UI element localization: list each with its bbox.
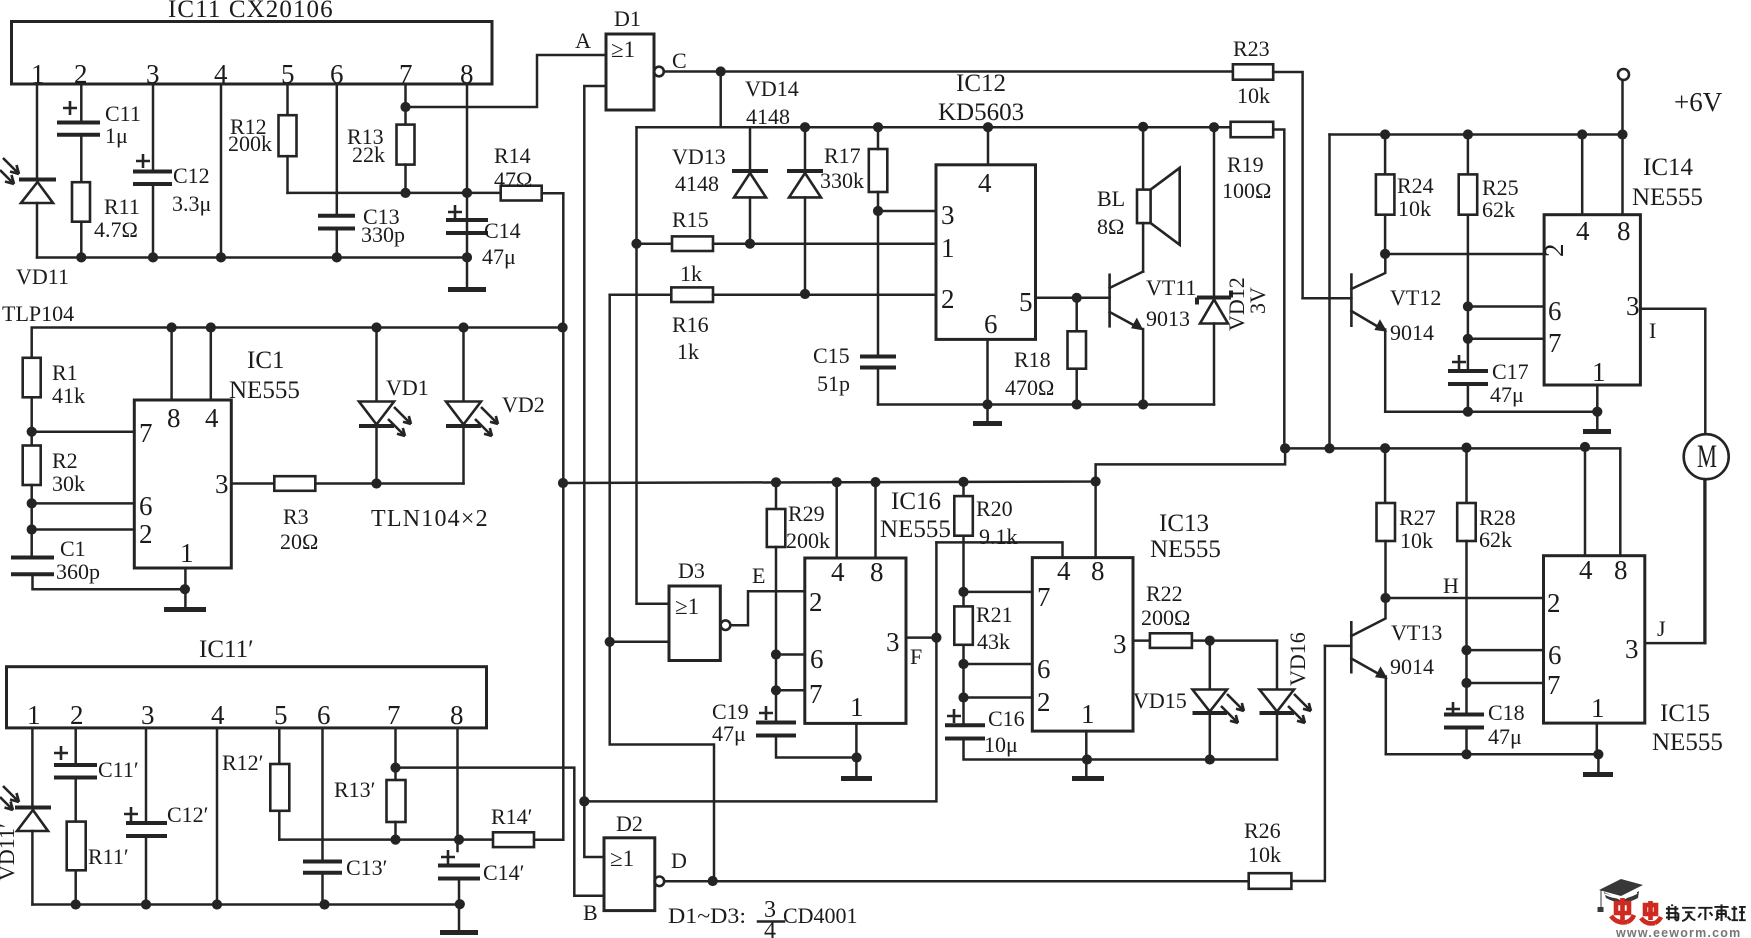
svg-text:47μ: 47μ xyxy=(1490,382,1524,407)
capacitor C14' xyxy=(438,850,525,931)
wire H to IC15 pin2 xyxy=(1386,597,1544,600)
svg-text:R18: R18 xyxy=(1014,347,1051,372)
wire IC15 pin4 xyxy=(1584,447,1587,556)
svg-text:62k: 62k xyxy=(1482,197,1515,222)
svg-text:IC14: IC14 xyxy=(1643,154,1694,181)
node rail R28 xyxy=(1461,443,1471,453)
svg-text:R11: R11 xyxy=(104,194,140,219)
wire IC13 pin2 xyxy=(964,696,1033,699)
op-amp IC16 NE555 box xyxy=(805,488,951,723)
svg-text:B: B xyxy=(583,900,598,925)
LED VD15 xyxy=(1133,641,1244,760)
svg-text:3: 3 xyxy=(1113,629,1127,659)
svg-text:TLN104×2: TLN104×2 xyxy=(371,506,489,532)
wire IC16 pin4 xyxy=(835,482,838,558)
wire IC1 pin6 xyxy=(32,502,135,505)
svg-text:6: 6 xyxy=(1037,654,1051,684)
node F xyxy=(931,633,941,643)
node VD14 pin2 wire xyxy=(800,289,810,299)
wire pin8 IC11 down xyxy=(466,84,469,232)
svg-text:41k: 41k xyxy=(52,383,85,408)
wire IC14 pin4 xyxy=(1581,135,1584,215)
wire IC14 pin2 xyxy=(1385,253,1544,256)
gate D2 xyxy=(604,811,687,911)
node rail R29 xyxy=(771,477,781,487)
svg-text:R29: R29 xyxy=(788,501,825,526)
node R13 bottom xyxy=(400,188,410,198)
svg-text:6: 6 xyxy=(810,644,824,674)
svg-text:6: 6 xyxy=(139,491,153,521)
node R25 pin6 xyxy=(1463,301,1473,311)
wire IC1 pin8 xyxy=(170,328,173,401)
op-amp IC1 NE555 box xyxy=(134,347,300,568)
svg-text:R3: R3 xyxy=(283,504,309,529)
node pin8' R14' xyxy=(454,835,464,845)
capacitor C18 xyxy=(1444,700,1525,754)
watermark eeworm logo xyxy=(1598,879,1746,938)
svg-text:VD14: VD14 xyxy=(745,76,799,101)
resistor R15 xyxy=(637,207,937,286)
gate D3 xyxy=(669,558,765,661)
svg-text:330p: 330p xyxy=(361,222,405,247)
transistor VT11 xyxy=(1110,272,1197,405)
resistor R19 xyxy=(1222,122,1284,449)
svg-text:C17: C17 xyxy=(1492,359,1529,384)
node rail pin3' xyxy=(141,899,151,909)
wire IC15 pin6 xyxy=(1467,649,1544,652)
svg-text:1μ: 1μ xyxy=(105,123,128,148)
svg-text:330k: 330k xyxy=(820,168,864,193)
wire IC1 pin7 xyxy=(32,430,135,433)
node rail IC16 pin8 xyxy=(870,477,880,487)
svg-text:200Ω: 200Ω xyxy=(1141,605,1190,630)
capacitor C16 xyxy=(945,706,1277,760)
op-amp IC11 CX20106 box xyxy=(12,0,493,89)
svg-text:F: F xyxy=(910,644,922,669)
svg-text:NE555: NE555 xyxy=(1632,184,1703,211)
svg-text:8: 8 xyxy=(450,700,464,730)
wire bottom rail IC11 xyxy=(37,256,467,259)
svg-text:470Ω: 470Ω xyxy=(1005,375,1054,400)
svg-text:A: A xyxy=(575,28,591,53)
svg-text:C11′: C11′ xyxy=(98,757,139,782)
svg-text:10k: 10k xyxy=(1237,83,1270,108)
svg-text:7: 7 xyxy=(1548,328,1562,358)
diode VD13 xyxy=(672,127,768,244)
capacitor C17 xyxy=(1448,355,1529,412)
resistor R2 xyxy=(23,446,85,556)
svg-text:≥1: ≥1 xyxy=(675,594,699,619)
svg-text:200k: 200k xyxy=(228,131,272,156)
wire IC16 pin8 xyxy=(874,482,877,558)
transistor VT12 xyxy=(1351,254,1441,412)
wire pin1 IC11' xyxy=(31,728,34,806)
node IC14 pin4 top xyxy=(1577,129,1587,139)
svg-text:8: 8 xyxy=(1614,555,1628,585)
node pin3 rail xyxy=(148,252,158,262)
wire IC15 pin1 stub xyxy=(1596,723,1599,754)
LED VD1 xyxy=(359,328,429,484)
node IC1 pin8 top xyxy=(167,322,177,332)
node rail R27 xyxy=(1380,443,1390,453)
wire F vertical xyxy=(584,542,936,801)
ground under C14 xyxy=(448,287,486,292)
svg-text:R13′: R13′ xyxy=(334,777,376,802)
node V3 F tap xyxy=(579,796,589,806)
svg-text:7: 7 xyxy=(387,700,401,730)
node C18 bottom xyxy=(1461,749,1471,759)
ground IC12 pin6 xyxy=(986,405,989,422)
wire IC16 pin1 ground xyxy=(855,723,858,775)
node rail pin6' xyxy=(319,899,329,909)
wire IC16 pin7 xyxy=(776,689,805,692)
wire A from pin7 to D1 xyxy=(406,55,607,107)
node VD15 bottom xyxy=(1205,754,1215,764)
svg-text:R24: R24 xyxy=(1397,173,1434,198)
op-amp IC12 KD5603 box xyxy=(936,70,1036,339)
wire IC14 pin7 xyxy=(1468,338,1544,341)
svg-text:VD1: VD1 xyxy=(386,375,429,400)
node pin5 R18 xyxy=(1072,293,1082,303)
svg-text:43k: 43k xyxy=(977,629,1010,654)
node rail IC16 pin4 xyxy=(832,477,842,487)
capacitor C11' xyxy=(54,728,139,822)
svg-text:C18: C18 xyxy=(1488,700,1525,725)
svg-text:4.7Ω: 4.7Ω xyxy=(94,217,138,242)
wire VT12 emitter rail xyxy=(1385,410,1597,413)
svg-text:R27: R27 xyxy=(1399,505,1436,530)
svg-text:4: 4 xyxy=(831,557,845,587)
wire IC15 pin3 J xyxy=(1645,479,1705,643)
svg-text:www.eeworm.com: www.eeworm.com xyxy=(1615,926,1741,938)
node VD1 bottom xyxy=(371,478,381,488)
svg-text:IC11 CX20106: IC11 CX20106 xyxy=(168,0,334,23)
svg-text:4: 4 xyxy=(978,168,992,198)
node IC13 pin1 rail xyxy=(1082,754,1092,764)
node R13 top / A wire xyxy=(400,102,410,112)
wire pin4 IC11 xyxy=(220,84,223,258)
transistor VT13 xyxy=(1325,598,1442,754)
svg-text:NE555: NE555 xyxy=(1652,729,1723,756)
svg-text:R14: R14 xyxy=(494,143,531,168)
wire speaker rail xyxy=(637,126,1231,129)
svg-text:VD16: VD16 xyxy=(1285,632,1310,686)
wire D1 input2 vertical bus V3 xyxy=(584,86,606,857)
ground under C14' xyxy=(440,930,478,935)
svg-text:≥1: ≥1 xyxy=(610,846,634,871)
node C junction xyxy=(716,66,726,76)
svg-text:6: 6 xyxy=(1548,296,1562,326)
svg-text:D2: D2 xyxy=(616,811,643,836)
resistor R13' xyxy=(334,728,406,840)
wire IC1 pin2 xyxy=(32,528,135,531)
photodiode VD11' xyxy=(0,786,51,905)
svg-text:D1: D1 xyxy=(614,6,641,31)
capacitor C12' xyxy=(124,728,209,905)
svg-text:22k: 22k xyxy=(352,142,385,167)
ground IC13 xyxy=(1072,776,1104,781)
svg-text:4: 4 xyxy=(764,918,776,938)
svg-text:C16: C16 xyxy=(988,706,1025,731)
node pin8 rail xyxy=(462,252,472,262)
node R28 pin7 xyxy=(1461,678,1471,688)
resistor R14 xyxy=(494,143,563,201)
resistor R12 xyxy=(228,84,297,193)
svg-text:H: H xyxy=(1443,573,1459,598)
node rail C14' xyxy=(455,899,465,909)
node R25 pin7 xyxy=(1463,334,1473,344)
svg-text:7: 7 xyxy=(1037,582,1051,612)
resistor R14' xyxy=(491,804,563,847)
capacitor C15 xyxy=(813,343,896,405)
node R29 pin6 xyxy=(771,649,781,659)
node R25 top xyxy=(1463,129,1473,139)
op-amp IC14 NE555 box xyxy=(1539,154,1703,387)
wire VT13 emitter rail xyxy=(1386,753,1599,756)
wire VT12 base xyxy=(1303,297,1352,300)
resistor R1 xyxy=(23,358,85,446)
LED VD2 xyxy=(446,328,545,484)
node R1 bottom / pin7 xyxy=(27,427,37,437)
node VT11 emitter rail xyxy=(1138,399,1148,409)
wire IC13 pin6 xyxy=(964,663,1033,666)
wire pin1 IC11 xyxy=(36,84,39,178)
svg-text:8: 8 xyxy=(167,403,181,433)
ground IC16 xyxy=(841,776,872,781)
svg-text:IC12: IC12 xyxy=(956,70,1006,97)
node IC15 pin1 xyxy=(1593,749,1603,759)
svg-text:2: 2 xyxy=(1547,588,1561,618)
gate D1 xyxy=(575,6,687,110)
svg-text:1: 1 xyxy=(941,233,955,263)
node pin2 tap IC13 xyxy=(958,692,968,702)
svg-text:IC11′: IC11′ xyxy=(199,636,254,663)
svg-text:6: 6 xyxy=(984,309,998,339)
svg-text:8: 8 xyxy=(1617,216,1631,246)
svg-text:2: 2 xyxy=(941,284,955,314)
svg-text:47μ: 47μ xyxy=(1488,724,1522,749)
wire vertical bus V1 from R14 to R14' xyxy=(562,193,565,840)
wire R12' bottom row xyxy=(279,838,493,841)
svg-text:200k: 200k xyxy=(786,528,830,553)
resistor R17 xyxy=(820,127,887,354)
svg-text:C14′: C14′ xyxy=(483,860,525,885)
node IC14 pin1 xyxy=(1592,407,1602,417)
svg-text:D: D xyxy=(671,848,687,873)
node pin1 ground xyxy=(180,584,190,594)
node D xyxy=(708,876,718,886)
svg-text:C1: C1 xyxy=(60,536,86,561)
wire IC14 pin8 xyxy=(1621,135,1624,215)
wire IC12 pin4 xyxy=(987,127,990,165)
node V4 R15 xyxy=(631,239,641,249)
node VD1 top xyxy=(371,322,381,332)
svg-text:8: 8 xyxy=(870,557,884,587)
svg-text:NE555: NE555 xyxy=(880,516,951,543)
svg-text:BL: BL xyxy=(1097,186,1125,211)
svg-text:3: 3 xyxy=(941,200,955,230)
svg-text:4148: 4148 xyxy=(675,171,719,196)
svg-text:2: 2 xyxy=(1037,687,1051,717)
resistor R13 xyxy=(347,84,415,193)
node V5 D3 input2 xyxy=(605,637,615,647)
ground IC14 xyxy=(1596,412,1599,429)
node +6V riser xyxy=(1617,129,1627,139)
node R13' top / pin7' wire xyxy=(390,763,400,773)
node H xyxy=(1380,593,1390,603)
svg-text:8Ω: 8Ω xyxy=(1097,214,1124,239)
capacitor C1 xyxy=(11,536,185,589)
svg-text:3: 3 xyxy=(215,469,229,499)
svg-text:R19: R19 xyxy=(1227,152,1264,177)
svg-text:5: 5 xyxy=(1019,287,1033,317)
svg-text:CD4001: CD4001 xyxy=(783,903,858,928)
svg-text:C12: C12 xyxy=(173,163,210,188)
capacitor C11 xyxy=(57,84,141,182)
wire IC12 pin5 xyxy=(1036,297,1110,300)
svg-text:1: 1 xyxy=(1081,699,1095,729)
node R20 bottom pin7 xyxy=(958,587,968,597)
capacitor C14 xyxy=(446,205,521,288)
svg-text:10k: 10k xyxy=(1248,842,1281,867)
wire C output xyxy=(664,70,1233,73)
node R29 pin7 xyxy=(771,685,781,695)
resistor R27 xyxy=(1377,448,1436,598)
svg-text:7: 7 xyxy=(139,418,153,448)
node rail +6V link xyxy=(1324,443,1334,453)
resistor R22 xyxy=(1141,581,1277,648)
svg-text:4: 4 xyxy=(211,700,225,730)
node pin1 C19 xyxy=(852,752,862,762)
resistor R29 xyxy=(767,482,830,721)
svg-text:E: E xyxy=(752,563,765,588)
svg-text:2: 2 xyxy=(809,587,823,617)
wire IC13 pin7 xyxy=(964,591,1033,594)
svg-text:VD2: VD2 xyxy=(502,392,545,417)
svg-text:3: 3 xyxy=(141,700,155,730)
wire pin7' feedback row xyxy=(396,768,605,896)
svg-text:1: 1 xyxy=(1592,357,1606,387)
wire IC13 pin1 ground xyxy=(1085,731,1088,776)
svg-text:R15: R15 xyxy=(672,207,709,232)
resistor R12' xyxy=(222,728,289,840)
supply rail y482 xyxy=(563,448,1285,483)
motor M xyxy=(1684,434,1729,643)
capacitor C13' xyxy=(303,728,388,905)
wire IC13 pin3 xyxy=(1133,639,1150,642)
wire IC12 ground rail xyxy=(878,403,1214,406)
node R17 bottom pin3 xyxy=(873,206,883,216)
capacitor C13 xyxy=(318,84,405,258)
svg-text:KD5603: KD5603 xyxy=(938,99,1024,126)
svg-text:1: 1 xyxy=(1591,693,1605,723)
resistor R18 xyxy=(1005,298,1086,405)
ground IC1 xyxy=(164,607,206,612)
svg-text:9013: 9013 xyxy=(1146,306,1190,331)
svg-text:4: 4 xyxy=(1057,556,1071,586)
speaker BL xyxy=(1097,127,1180,271)
wire D3 input2 xyxy=(610,641,669,644)
op-amp IC13 NE555 box xyxy=(1032,510,1221,731)
svg-text:2: 2 xyxy=(139,519,153,549)
svg-text:1: 1 xyxy=(27,700,41,730)
wire IC14 pin3 I xyxy=(1640,309,1705,435)
wire IC15 pin7 xyxy=(1467,682,1544,685)
svg-text:51p: 51p xyxy=(817,371,850,396)
op-amp IC15 NE555 box xyxy=(1544,555,1723,756)
node pin6 rail xyxy=(332,252,342,262)
node speaker rail R17 xyxy=(873,122,883,132)
wire V5 R16 net xyxy=(610,295,714,881)
svg-text:47Ω: 47Ω xyxy=(494,167,532,192)
svg-text:C15: C15 xyxy=(813,343,850,368)
wire IC16 pin6 xyxy=(776,653,805,656)
svg-text:100Ω: 100Ω xyxy=(1222,178,1271,203)
svg-text:62k: 62k xyxy=(1479,527,1512,552)
svg-text:VD15: VD15 xyxy=(1133,688,1187,713)
svg-text:47μ: 47μ xyxy=(712,721,746,746)
resistor R21 xyxy=(954,602,1012,724)
wire IC1 pin1 xyxy=(184,568,187,607)
svg-text:D3: D3 xyxy=(678,558,705,583)
+6V rail lower xyxy=(1285,448,1620,555)
resistor R23 xyxy=(1233,36,1303,298)
svg-text:R2: R2 xyxy=(52,448,78,473)
wire D3 output to IC16 pin2 xyxy=(730,591,805,625)
svg-text:1k: 1k xyxy=(680,261,702,286)
svg-text:R23: R23 xyxy=(1233,36,1270,61)
svg-text:R20: R20 xyxy=(976,496,1013,521)
node rail R20 xyxy=(958,477,968,487)
node rail pin4' xyxy=(212,899,222,909)
svg-text:1: 1 xyxy=(180,538,194,568)
svg-text:3: 3 xyxy=(1626,291,1640,321)
svg-text:4: 4 xyxy=(1579,555,1593,585)
svg-text:3: 3 xyxy=(886,627,900,657)
svg-text:D1~D3:: D1~D3: xyxy=(668,903,746,928)
capacitor C19 xyxy=(712,699,857,758)
node V1 / supply rail xyxy=(558,478,568,488)
svg-text:1: 1 xyxy=(850,692,864,722)
svg-text:NE555: NE555 xyxy=(229,377,300,404)
svg-text:3: 3 xyxy=(1625,634,1639,664)
svg-text:I: I xyxy=(1649,318,1656,343)
label D1~D3 CD4001 note xyxy=(668,897,858,938)
wire bottom rail IC11' xyxy=(32,903,459,906)
svg-text:4148: 4148 xyxy=(746,104,790,129)
svg-text:1k: 1k xyxy=(677,339,699,364)
svg-text:VT13: VT13 xyxy=(1391,620,1442,645)
node pin6 ground rail xyxy=(982,399,992,409)
svg-text:M: M xyxy=(1697,439,1717,475)
svg-text:R22: R22 xyxy=(1146,581,1183,606)
node pin4 rail xyxy=(216,252,226,262)
svg-text:20Ω: 20Ω xyxy=(280,529,318,554)
svg-text:C12′: C12′ xyxy=(167,802,209,827)
svg-text:C13′: C13′ xyxy=(346,855,388,880)
svg-text:VD13: VD13 xyxy=(672,144,726,169)
node pin2 tap xyxy=(27,524,37,534)
node VD2 top xyxy=(458,322,468,332)
svg-text:10k: 10k xyxy=(1400,528,1433,553)
node VT12 collector pin2 xyxy=(1380,249,1390,259)
svg-text:VT11: VT11 xyxy=(1146,275,1197,300)
svg-text:4: 4 xyxy=(205,403,219,433)
svg-text:10μ: 10μ xyxy=(984,732,1018,757)
svg-text:J: J xyxy=(1657,616,1666,641)
terminal +6V xyxy=(1618,69,1723,135)
svg-text:R12′: R12′ xyxy=(222,750,264,775)
